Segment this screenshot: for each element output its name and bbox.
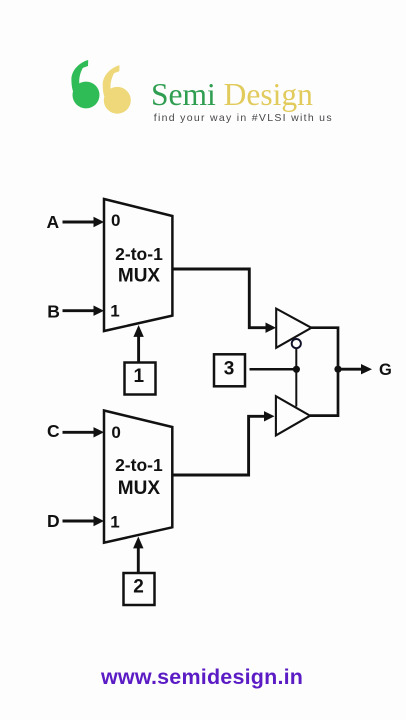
wire G output arrow <box>338 364 372 374</box>
wire output rail <box>310 328 338 416</box>
wire D input arrow <box>63 516 105 526</box>
logo tagline <box>154 112 333 124</box>
mux M1 (2-to-1 MUX top) <box>104 199 172 331</box>
svg-text:2-to-1: 2-to-1 <box>115 455 163 475</box>
wire B input arrow <box>63 306 105 316</box>
wire A input arrow <box>63 217 105 227</box>
wire M2 output to buffer U2 <box>172 411 274 475</box>
svg-text:G: G <box>379 361 392 379</box>
U1 enable bubble <box>292 339 301 348</box>
junction J1 <box>293 366 300 373</box>
select box 1 <box>125 363 156 395</box>
svg-text:D: D <box>47 511 60 531</box>
svg-text:MUX: MUX <box>118 266 161 287</box>
svg-text:1: 1 <box>110 302 119 321</box>
wire select S2 arrow <box>133 537 143 573</box>
svg-text:1: 1 <box>110 513 119 532</box>
junction J2 <box>334 366 341 373</box>
tri-state buffer U1 <box>276 309 311 348</box>
wire select S1 arrow <box>133 325 143 362</box>
wire junction to bubble <box>295 348 297 369</box>
wire box3 to junction <box>250 368 297 371</box>
tri-state buffer U2 <box>276 396 310 435</box>
mux M2 (2-to-1 MUX bottom) <box>104 411 172 543</box>
wire C input arrow <box>63 427 105 437</box>
svg-text:0: 0 <box>111 211 120 230</box>
wire M1 output to buffer U1 <box>172 269 276 333</box>
footer website <box>101 665 303 690</box>
svg-text:B: B <box>47 301 60 321</box>
select box 2 <box>124 573 155 605</box>
wire junction to U2 enable <box>295 369 297 406</box>
select box 3 <box>214 354 245 386</box>
svg-text:2: 2 <box>133 577 144 598</box>
svg-text:0: 0 <box>111 423 120 442</box>
svg-text:C: C <box>47 421 60 441</box>
svg-text:1: 1 <box>134 366 145 387</box>
svg-text:2-to-1: 2-to-1 <box>115 244 163 264</box>
svg-text:3: 3 <box>224 359 235 380</box>
yellow quote <box>103 65 131 114</box>
logo text Semi Design <box>151 79 313 111</box>
green quote <box>71 60 99 108</box>
svg-text:A: A <box>47 212 60 232</box>
svg-text:MUX: MUX <box>118 478 161 499</box>
